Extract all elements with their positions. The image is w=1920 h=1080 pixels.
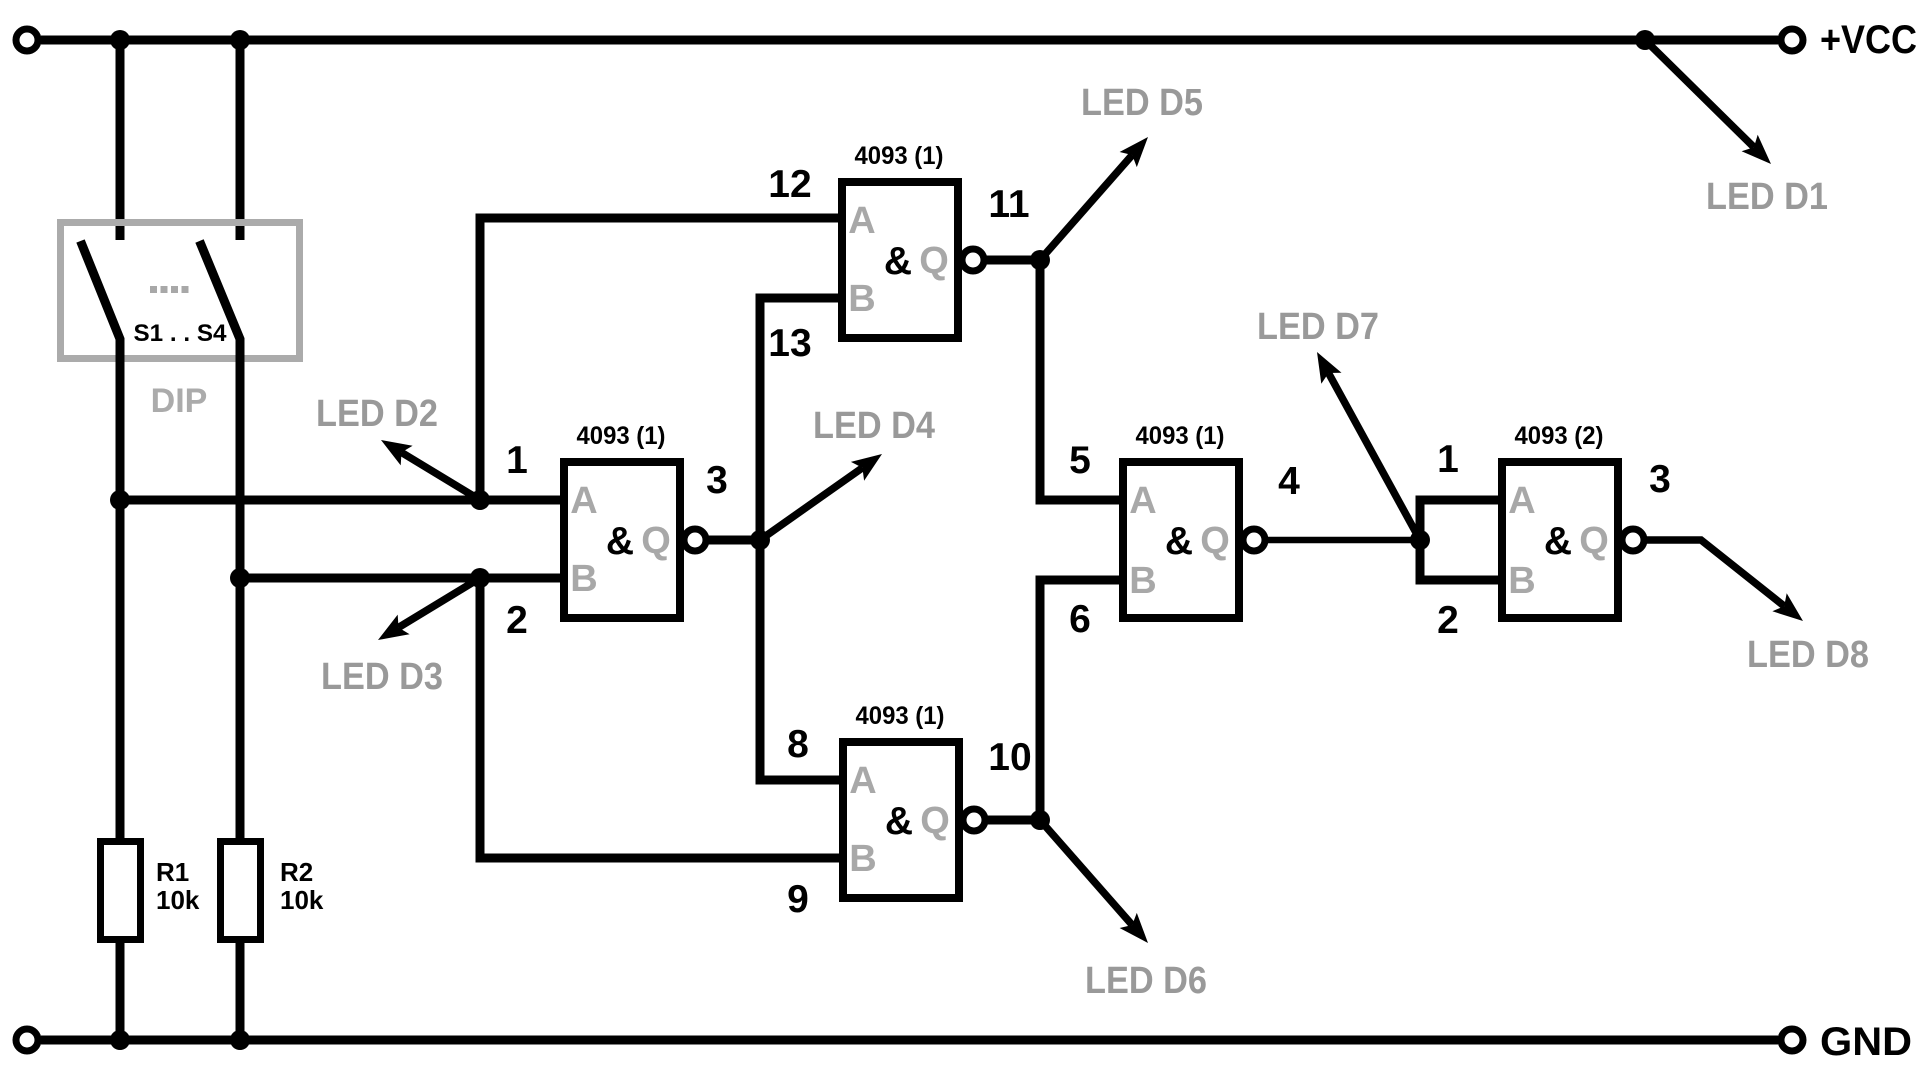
junction dot node S2-R2 (230, 568, 250, 588)
arrow LED D4 (760, 468, 862, 540)
resistor R1 (101, 842, 141, 940)
junction dot node 11 (1030, 250, 1050, 270)
svg-text:8: 8 (787, 723, 809, 766)
svg-text:LED D7: LED D7 (1257, 306, 1379, 348)
terminal GND right (1781, 1029, 1803, 1051)
junction dot node 3 (750, 530, 770, 550)
junction dot VCC-S1 (110, 30, 130, 50)
junction dot node pin2-pin9 (470, 568, 490, 588)
wire switch S1 to resistor R1 (116, 496, 125, 845)
arrow LED D6 (1040, 820, 1132, 925)
svg-text:A: A (1129, 480, 1156, 522)
resistor R2 (221, 842, 261, 940)
svg-text:4093 (1): 4093 (1) (1136, 422, 1225, 450)
junction dot node 4 (1410, 530, 1430, 550)
svg-text:2: 2 (506, 599, 528, 642)
label dots .... (150, 286, 189, 293)
svg-text:R1: R1 (156, 857, 189, 887)
svg-text:A: A (849, 760, 876, 802)
switch S1 blade (81, 241, 121, 505)
svg-text:B: B (849, 838, 876, 880)
svg-text:&: & (884, 240, 912, 283)
svg-text:11: 11 (988, 183, 1029, 226)
svg-text:LED D5: LED D5 (1081, 82, 1203, 124)
svg-text:LED D1: LED D1 (1706, 176, 1828, 218)
svg-text:4093 (1): 4093 (1) (855, 142, 944, 170)
NAND gate U1C (4093) (843, 742, 985, 898)
svg-text:&: & (1544, 520, 1572, 563)
wire riser to gate U1D input A (pin 12) (480, 218, 838, 500)
svg-text:&: & (885, 800, 913, 843)
svg-text:3: 3 (1649, 458, 1671, 501)
wire node S2 to gate U1A input B (pin 2) (240, 574, 560, 583)
svg-text:A: A (848, 200, 875, 242)
svg-text:Q: Q (1200, 520, 1230, 562)
wire gate U1A output (pin 3) (706, 536, 760, 545)
svg-text:4093 (1): 4093 (1) (577, 422, 666, 450)
wire node 3 to gate U1D input B (pin 13) (760, 298, 838, 540)
junction dot GND-R1 (110, 1030, 130, 1050)
svg-text:10: 10 (988, 736, 1031, 779)
svg-text:B: B (570, 558, 597, 600)
svg-text:B: B (1129, 560, 1156, 602)
svg-text:13: 13 (768, 322, 811, 365)
svg-text:A: A (1508, 480, 1535, 522)
arrow LED D1 (1645, 40, 1754, 147)
svg-text:B: B (1508, 560, 1535, 602)
svg-text:6: 6 (1069, 598, 1091, 641)
svg-text:4093 (1): 4093 (1) (856, 702, 945, 730)
terminal +VCC left (16, 29, 38, 51)
svg-text:Q: Q (919, 240, 949, 282)
junction dot GND-R2 (230, 1030, 250, 1050)
svg-text:B: B (848, 278, 875, 320)
switch S2 blade (200, 241, 241, 583)
arrow LED D3 (399, 578, 481, 628)
wire +VCC rail (41, 36, 1778, 45)
svg-text:DIP: DIP (151, 382, 208, 420)
svg-text:&: & (606, 520, 634, 563)
svg-text:4093 (2): 4093 (2) (1515, 422, 1604, 450)
svg-text:Q: Q (1579, 520, 1609, 562)
svg-text:1: 1 (1437, 438, 1459, 481)
junction dot node pin1-pin12 (470, 490, 490, 510)
junction dot VCC-S2 (230, 30, 250, 50)
wire resistor R1 to GND rail (116, 939, 125, 1040)
wire node 3 to gate U1C input A (pin 8) (760, 540, 839, 780)
svg-text:R2: R2 (280, 857, 313, 887)
wire node 10 to gate U1B input B (pin 6) (1040, 580, 1119, 820)
svg-text:+VCC: +VCC (1820, 18, 1917, 62)
wire GND rail (41, 1036, 1778, 1045)
arrow LED D2 (402, 452, 481, 500)
svg-text:2: 2 (1437, 599, 1459, 642)
svg-text:5: 5 (1069, 439, 1091, 482)
NAND gate U1D (4093) (842, 182, 984, 338)
svg-text:&: & (1165, 520, 1193, 563)
wire gate U1C output (pin 10) (985, 816, 1040, 825)
DIP switch box (61, 223, 300, 359)
arrow LED D5 (1040, 155, 1132, 260)
svg-text:3: 3 (706, 459, 728, 502)
junction dot VCC-D1 (1635, 30, 1655, 50)
svg-text:10k: 10k (280, 885, 324, 915)
wire gate U1B output (pin 4) (1265, 537, 1420, 544)
svg-text:10k: 10k (156, 885, 200, 915)
NAND gate U1A (4093) (564, 462, 706, 618)
arrow LED D7 (1329, 373, 1421, 540)
wire node S1 to gate U1A input A (pin 1) (120, 496, 560, 505)
wire resistor R2 to GND rail (236, 939, 245, 1040)
wire from +VCC rail to switch S1 (116, 40, 125, 240)
terminal GND left (16, 1029, 38, 1051)
wire gate U1D output (pin 11) (984, 256, 1040, 265)
svg-text:LED D4: LED D4 (813, 405, 935, 447)
junction dot node S1-R1 (110, 490, 130, 510)
svg-text:4: 4 (1278, 460, 1300, 503)
svg-text:LED D2: LED D2 (316, 393, 438, 435)
svg-text:LED D8: LED D8 (1747, 634, 1869, 676)
wire switch S2 to resistor R2 (236, 574, 245, 845)
junction dot node 10 (1030, 810, 1050, 830)
wire node 11 to gate U1B input A (pin 5) (1040, 260, 1119, 500)
wire riser to gate U1C input B (pin 9) (480, 578, 839, 858)
NAND gate U2A (4093) (1502, 462, 1644, 618)
svg-text:Q: Q (641, 520, 671, 562)
NAND gate U1B (4093) (1123, 462, 1265, 618)
svg-text:A: A (570, 480, 597, 522)
wire node 4 to gate U2A inputs (pins 1,2) (1420, 500, 1498, 580)
svg-text:Q: Q (920, 800, 950, 842)
svg-text:GND: GND (1820, 1020, 1912, 1064)
wire gate U2A output to LED D8 arrow (1644, 540, 1784, 606)
svg-text:LED D6: LED D6 (1085, 960, 1207, 1002)
svg-text:12: 12 (768, 163, 811, 206)
wire from +VCC rail to switch S2 (236, 40, 245, 240)
svg-text:LED D3: LED D3 (321, 656, 443, 698)
svg-text:1: 1 (506, 439, 528, 482)
svg-text:S1 . . S4: S1 . . S4 (134, 320, 228, 347)
terminal +VCC right (1781, 29, 1803, 51)
svg-text:9: 9 (787, 878, 809, 921)
